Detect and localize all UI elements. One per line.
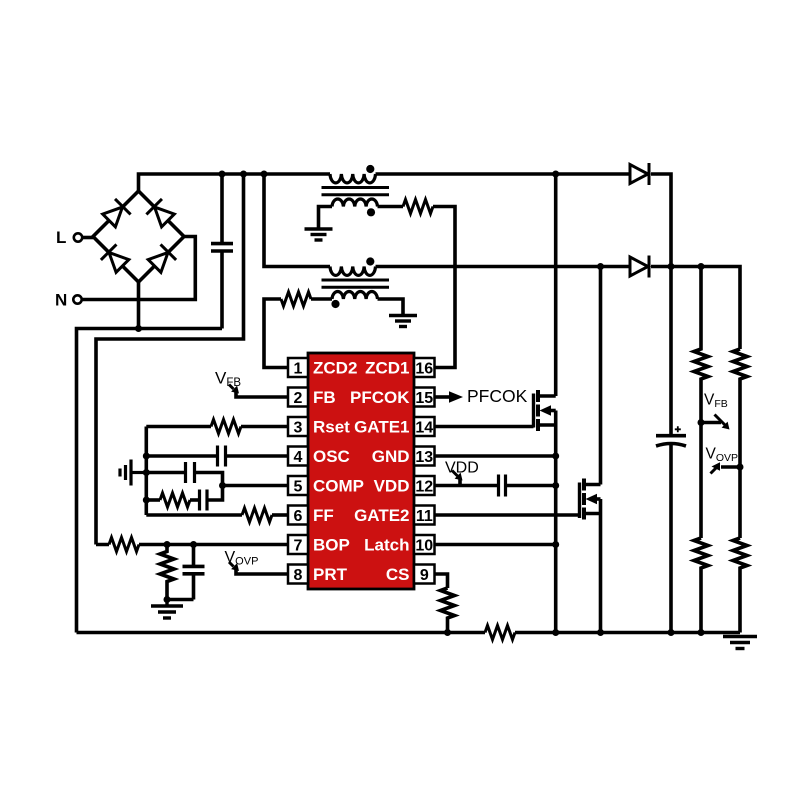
node VOVP tap <box>737 464 744 471</box>
node rail ground <box>143 469 150 476</box>
svg-text:2: 2 <box>294 390 303 407</box>
svg-text:PRT: PRT <box>313 565 348 584</box>
resistor R4 FB divider lower <box>694 538 708 633</box>
resistor R13 sense <box>485 626 515 640</box>
wire D2 cathode to output node <box>651 267 740 350</box>
IC U1 body <box>308 353 414 589</box>
svg-text:L: L <box>56 228 66 247</box>
ground output <box>723 637 757 649</box>
node output rail x671 <box>668 263 675 270</box>
transformer T2 secondary winding <box>332 292 378 299</box>
resistor R10 BOP series <box>109 538 139 552</box>
wire left rail OSC network <box>145 427 149 516</box>
svg-text:ZCD1: ZCD1 <box>365 359 409 378</box>
pin 7 box <box>288 535 308 555</box>
transformer T2 primary winding <box>330 267 376 276</box>
wire T1 secondary left lead <box>319 207 333 229</box>
wire PRT pin 8 <box>236 568 288 575</box>
resistor R6 OVP divider lower <box>733 538 747 633</box>
svg-text:12: 12 <box>415 479 433 496</box>
pin 2 box <box>288 388 308 408</box>
svg-text:GATE2: GATE2 <box>354 506 409 525</box>
bridge diode D3 <box>101 199 130 228</box>
capacitor C3 OSC <box>218 446 226 467</box>
wire C3 to pin 4 <box>226 454 289 458</box>
svg-text:N: N <box>55 291 67 310</box>
resistor R7 Rset <box>211 420 241 434</box>
pin 16 box <box>414 358 435 378</box>
wire C7 to source rail <box>506 484 556 488</box>
pin 6 box <box>288 506 308 526</box>
ground T2 secondary <box>389 316 417 327</box>
wire bottom rail right segment <box>515 631 740 635</box>
resistor R3 FB divider upper <box>694 267 708 539</box>
wire R2 to ZCD2 pin 1 <box>264 299 288 368</box>
svg-text:VFB: VFB <box>215 369 241 390</box>
wire Latch pin 10 <box>435 543 556 547</box>
pin 14 box <box>414 417 435 437</box>
svg-text:8: 8 <box>294 567 303 584</box>
pin 1 box <box>288 358 308 378</box>
pin 10 box <box>414 535 435 555</box>
bridge rectifier BR1 <box>93 191 184 282</box>
pin 9 box <box>414 565 435 585</box>
resistor R11 BOP shunt <box>160 545 174 600</box>
node GND on source rail <box>552 453 559 460</box>
IC U1 pin labels <box>313 359 410 585</box>
wire Rset pin 3 <box>146 425 211 429</box>
svg-text:ZCD2: ZCD2 <box>313 359 357 378</box>
wire COMP upper branch <box>146 471 185 475</box>
node Latch on source rail <box>552 541 559 548</box>
wire Q1 drain up to top rail <box>554 174 558 396</box>
node output rail x701 <box>698 263 705 270</box>
pin 15 box <box>414 388 435 408</box>
capacitor C4 COMP parallel <box>186 462 195 483</box>
wire GATE1 pin 14 to Q1 gate <box>435 425 534 429</box>
node rail2 Q2 drain <box>597 263 604 270</box>
diode D1 boost 1 <box>630 163 649 185</box>
ground T1 secondary <box>305 229 333 240</box>
wire top rail right segment to D1 <box>376 172 631 176</box>
wire bottom rail left segment <box>77 631 486 635</box>
svg-text:15: 15 <box>415 390 433 407</box>
svg-text:COMP: COMP <box>313 477 364 496</box>
transformer T1 core <box>322 188 390 195</box>
transformer T2 phase dot secondary <box>331 300 339 308</box>
svg-text:5: 5 <box>294 479 303 496</box>
diode D2 boost 2 <box>630 256 649 278</box>
svg-text:OSC: OSC <box>313 447 350 466</box>
wire PFCOK pin 15 <box>435 395 450 399</box>
label VOVP right probe <box>706 446 741 474</box>
resistor R9 FF <box>242 508 272 522</box>
node bottom C2 <box>668 629 675 636</box>
svg-text:3: 3 <box>294 420 303 437</box>
wire rail2 feed and rail 2 <box>264 174 330 267</box>
node VDD on source rail <box>552 482 559 489</box>
node BOP R branch <box>164 541 171 548</box>
wire CS pin 9 <box>435 574 448 588</box>
wire BOP shunt bottom <box>167 598 194 602</box>
svg-text:VOVP: VOVP <box>706 446 739 465</box>
transformer T1 phase dot primary <box>366 165 374 173</box>
svg-text:VOVP: VOVP <box>225 549 259 568</box>
svg-text:CS: CS <box>386 565 410 584</box>
capacitor C1 input filter <box>211 174 233 329</box>
svg-text:9: 9 <box>420 567 429 584</box>
ground OSC rail (rotated) <box>120 460 146 486</box>
svg-text:FF: FF <box>313 506 334 525</box>
wire OSC pin 4 left <box>146 454 217 458</box>
pin 4 box <box>288 447 308 467</box>
node bottom Q2 source <box>597 629 604 636</box>
wire rail2 right segment to D2 <box>376 265 631 269</box>
wire BOP pin 7 <box>96 543 288 547</box>
ground BOP <box>151 600 183 619</box>
node bridge bottom on line A <box>135 325 142 332</box>
wire bridge top to top rail <box>139 174 331 191</box>
svg-text:13: 13 <box>415 449 433 466</box>
svg-text:1: 1 <box>294 361 303 378</box>
capacitor C2 output bulk <box>656 267 686 633</box>
svg-text:10: 10 <box>415 538 433 555</box>
node BOP ground <box>164 596 171 603</box>
arrow PFCOK output <box>449 391 463 403</box>
svg-text:7: 7 <box>294 538 303 555</box>
transistor Q1 MOSFET <box>534 390 556 431</box>
transformer T2 phase dot primary <box>366 257 374 265</box>
wire T1 secondary right lead <box>378 205 404 209</box>
resistor R1 ZCD1 <box>403 200 433 214</box>
wire R7 to pin3 <box>241 425 288 429</box>
node VFB tap <box>698 419 705 426</box>
svg-text:GATE1: GATE1 <box>354 418 409 437</box>
wire GATE2 pin 11 to Q2 gate <box>435 513 580 517</box>
wire line B rail to BOP <box>96 174 244 545</box>
svg-text:11: 11 <box>416 508 433 525</box>
node bottom CS <box>444 629 451 636</box>
transformer T1 primary winding <box>330 174 376 183</box>
wire line A bridge negative return <box>77 329 223 633</box>
wire D1 cathode down to rail2 <box>651 174 671 267</box>
svg-text:GND: GND <box>372 447 410 466</box>
pin 11 box <box>414 506 435 526</box>
node bottom Q1 source <box>552 629 559 636</box>
svg-text:4: 4 <box>294 449 303 466</box>
pin 8 box <box>288 565 308 585</box>
svg-text:PFCOK: PFCOK <box>467 386 528 406</box>
wire T2 secondary left lead <box>311 297 332 301</box>
resistor R2 ZCD2 <box>281 292 311 306</box>
wire R1 to ZCD1 pin 16 <box>433 207 455 368</box>
svg-text:14: 14 <box>415 420 433 437</box>
svg-text:FB: FB <box>313 388 336 407</box>
wire bridge bottom stub <box>137 282 141 329</box>
label VDD probe <box>445 460 479 486</box>
bridge diode D6 <box>147 244 176 273</box>
transformer T1 phase dot secondary <box>367 208 375 216</box>
resistor R12 CS <box>441 588 455 633</box>
wire C5 to COMP node <box>207 486 223 501</box>
node bottom FB divider <box>698 629 705 636</box>
capacitor C5 COMP series <box>200 490 208 511</box>
pin 3 box <box>288 417 308 437</box>
svg-text:VFB: VFB <box>704 392 728 411</box>
wire Q2 source down to bottom rail <box>599 499 603 633</box>
resistor R5 OVP divider upper <box>733 349 747 538</box>
svg-text:BOP: BOP <box>313 536 350 555</box>
node COMP junction <box>219 482 226 489</box>
terminal N <box>55 291 82 310</box>
svg-text:VDD: VDD <box>445 460 479 477</box>
node BOP C branch <box>190 541 197 548</box>
transformer T1 secondary winding <box>332 199 378 206</box>
svg-text:PFCOK: PFCOK <box>350 388 410 407</box>
bridge diode D4 <box>146 199 175 228</box>
wire L to bridge <box>83 236 94 240</box>
wire C4 to COMP node <box>195 473 223 486</box>
svg-text:6: 6 <box>294 508 303 525</box>
svg-text:16: 16 <box>415 361 433 378</box>
node top rail x555.7 <box>552 171 559 178</box>
capacitor C7 VDD <box>499 475 506 497</box>
transistor Q2 MOSFET <box>580 479 601 520</box>
transformer T2 core <box>322 280 390 287</box>
wire GND pin 13 <box>435 454 556 458</box>
wire R8 to C5 <box>190 498 200 502</box>
node top rail x264 <box>261 171 268 178</box>
node rail RC branch <box>143 497 150 504</box>
node top rail x222 <box>219 171 226 178</box>
pin 12 box <box>414 476 435 496</box>
wire Q1 source down to bottom rail <box>554 411 558 633</box>
label VOVP pin8 probe <box>225 549 259 571</box>
wire N to bridge right vertex <box>82 237 195 300</box>
wire T2 secondary right lead <box>378 299 404 315</box>
wire RC branch left <box>146 498 160 502</box>
svg-text:Rset: Rset <box>313 418 350 437</box>
pin 13 box <box>414 447 435 467</box>
pin 5 box <box>288 476 308 496</box>
label VFB right probe <box>701 392 730 430</box>
svg-text:Latch: Latch <box>364 536 409 555</box>
node top rail x243.5 <box>240 171 247 178</box>
capacitor C6 BOP <box>183 545 205 600</box>
node rail OSC <box>143 453 150 460</box>
wire R9 to pin 6 <box>272 513 288 517</box>
wire COMP pin 5 <box>223 484 289 488</box>
label VFB pin2 probe <box>215 369 241 394</box>
wire Q2 drain up to rail2 <box>599 267 603 485</box>
wire VDD pin 12 <box>435 484 499 488</box>
resistor R8 COMP <box>160 493 190 507</box>
wire FB pin 2 <box>236 390 288 397</box>
wire FF pin 6 <box>146 513 242 517</box>
terminal L <box>56 228 82 247</box>
bridge diode D5 <box>101 244 130 273</box>
svg-text:VDD: VDD <box>374 477 410 496</box>
